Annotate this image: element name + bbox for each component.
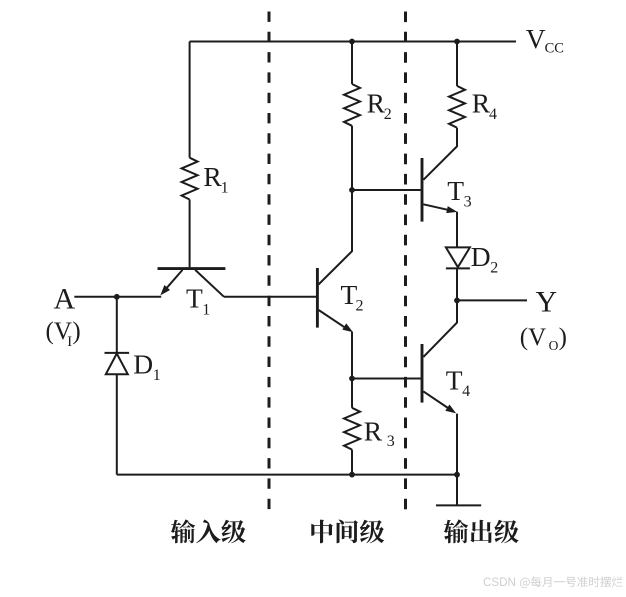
svg-text:): )	[72, 318, 80, 345]
label D2	[471, 241, 499, 277]
node: T4 base junction dot	[349, 376, 355, 382]
node: input junction dot	[114, 294, 120, 300]
label R1	[203, 161, 228, 197]
svg-text:D: D	[133, 348, 153, 379]
wire: R3 junction to T4 base	[352, 378, 421, 380]
wire: T4 emitter to bottom rail	[456, 414, 458, 475]
wire: T3 emitter to D2	[456, 212, 458, 248]
svg-text:T: T	[447, 175, 464, 206]
svg-text:R: R	[203, 161, 222, 192]
node: top rail junction dot (R2)	[349, 39, 355, 45]
svg-text:2: 2	[356, 298, 364, 315]
wire: R3 to bottom rail	[351, 450, 353, 475]
wire: input node down to D1	[116, 297, 118, 353]
wire: output node to T4 collector	[423, 300, 457, 357]
resistor R4	[449, 86, 465, 128]
label T4	[446, 364, 470, 400]
svg-text:CSDN: CSDN	[483, 576, 516, 589]
diode D1 (cathode bar and triangle)	[105, 353, 130, 374]
svg-text:D: D	[471, 241, 491, 272]
node: output junction dot	[454, 298, 460, 304]
label stage: middle stage 中间级	[311, 520, 384, 544]
wire: T2 emitter down to R3 junction	[351, 332, 353, 379]
label T3	[447, 175, 471, 211]
transistor T1 base bar	[158, 267, 226, 270]
node: bottom rail junction dot (ground)	[454, 472, 460, 478]
node: bottom rail junction dot (R3)	[349, 472, 355, 478]
node: top rail junction dot (R4)	[454, 39, 460, 45]
wire: top rail to R4	[456, 42, 458, 86]
stage separator dashed line (left)	[268, 12, 271, 513]
wire: R4 to T3 collector	[423, 128, 457, 180]
svg-text:1: 1	[202, 301, 210, 318]
watermark CSDN @每月一号准时摆烂	[483, 576, 623, 589]
transistor T4 base bar	[421, 344, 424, 403]
transistor T2 base bar	[316, 268, 319, 328]
label Vcc	[526, 23, 564, 57]
svg-text:T: T	[186, 283, 203, 314]
label R3	[364, 416, 395, 450]
svg-text:3: 3	[387, 433, 395, 450]
svg-text:R: R	[472, 87, 491, 118]
svg-text:CC: CC	[545, 41, 564, 57]
wire: junction to R3	[351, 379, 353, 408]
svg-text:2: 2	[384, 106, 392, 123]
stage separator dashed line (right)	[404, 12, 407, 512]
wire: top rail to R1	[189, 42, 191, 158]
resistor R1	[182, 158, 198, 200]
svg-text:1: 1	[221, 179, 229, 196]
svg-text:V: V	[526, 23, 546, 54]
svg-text:R: R	[367, 88, 386, 119]
svg-text:4: 4	[489, 106, 497, 123]
wire: Vcc top rail	[190, 41, 516, 43]
ground	[436, 475, 481, 506]
transistor T1 emitter with arrow	[161, 270, 182, 294]
svg-text:A: A	[54, 283, 76, 316]
wire: output node to Y	[457, 299, 527, 301]
label (VO)	[520, 324, 567, 353]
wire: R2 to T2 collector, junction at T3 base	[319, 126, 353, 285]
wire: bottom rail	[117, 474, 457, 476]
svg-text:): )	[559, 324, 567, 351]
transistor T3 base bar	[421, 158, 424, 222]
transistor T4 emitter with arrow	[423, 391, 455, 412]
wire: top rail to R2	[351, 42, 353, 85]
wire: R1 to T1 base	[189, 200, 191, 268]
diode D2 (triangle and cathode bar)	[446, 247, 470, 268]
wire: T1 collector to T2 base	[224, 296, 316, 298]
transistor T3 emitter with arrow	[423, 204, 455, 212]
wire: input A to T1 emitter	[74, 296, 161, 298]
svg-text:1: 1	[153, 367, 161, 384]
label R4	[472, 87, 497, 123]
wire: D2 to output node	[456, 268, 458, 300]
transistor T1 collector	[195, 270, 224, 297]
svg-text:4: 4	[462, 383, 470, 400]
svg-text:2: 2	[490, 260, 498, 277]
wire: junction to T3 base	[352, 189, 421, 191]
svg-text:O: O	[549, 338, 559, 353]
label R2	[367, 88, 392, 124]
node: T3 base tap junction dot	[349, 187, 355, 193]
label stage: output stage 输出级	[444, 519, 519, 543]
label (VI)	[46, 318, 81, 350]
transistor T2 emitter with arrow	[319, 310, 352, 331]
resistor R3	[344, 408, 360, 450]
resistor R2	[344, 84, 360, 126]
label stage: input stage 输入级	[171, 519, 246, 543]
label T1	[186, 283, 210, 319]
svg-text:3: 3	[464, 193, 472, 210]
wire: D1 to bottom rail	[116, 374, 118, 474]
svg-text:R: R	[364, 416, 383, 447]
label D1	[133, 348, 161, 384]
svg-text:T: T	[446, 364, 463, 395]
label T2	[341, 279, 364, 315]
svg-text:(V: (V	[520, 324, 546, 351]
svg-text:Y: Y	[536, 286, 558, 319]
